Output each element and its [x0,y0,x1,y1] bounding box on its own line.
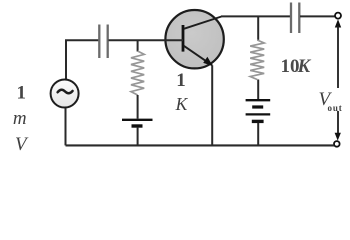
svg-text:V: V [15,134,29,155]
svg-text:out: out [328,103,343,113]
svg-text:1: 1 [176,70,186,91]
label: output voltage V out [319,89,343,113]
resistor R2 (10K collector resistor, zigzag) [250,40,264,80]
arrow: Vout lower (pointing down at terminal) [335,111,341,141]
wire: C1 to transistor base [109,39,184,41]
wire: junction drop to resistor R2 [257,16,259,40]
wire: source bottom to ground rail [65,108,67,145]
battery B2 (two cell supply under R2) [246,100,271,121]
arrow: Vout upper (pointing up at terminal) [335,19,341,88]
terminal: output top [335,13,341,19]
wire: B1 to ground rail [137,128,139,146]
resistor R1 (1K base resistor, zigzag) [131,51,144,95]
wire: collector top rail to output cap [221,15,291,17]
ac source V1 (1 mV signal generator) [51,80,79,108]
svg-text:m: m [13,108,27,129]
wire: bottom ground rail [66,144,335,146]
wire: left vertical from source to input cap [66,40,99,79]
label: R1 value "1 K" [175,70,189,114]
svg-text:1: 1 [17,83,27,104]
label: source value "1 m V" [13,83,29,156]
wire: R1 to battery B1 [137,95,139,119]
capacitor C2 (output coupling) [291,3,299,34]
wire: emitter vertical to ground rail [211,65,213,145]
wire: B2 to ground rail [257,123,259,146]
wire: C2 to output terminal [300,15,335,17]
label: R2 value "10K" [281,56,312,77]
transistor Q1 collector and emitter strokes [184,17,222,67]
capacitor C1 (input coupling) [99,25,107,59]
transistor Q1 (NPN, common emitter) [165,10,223,68]
terminal: output bottom [334,141,340,147]
wire: junction drop to resistor R1 [137,40,139,51]
battery B1 (single cell under R1) [122,120,153,126]
svg-text:K: K [175,94,189,114]
wire: R2 to battery B2 [257,80,259,100]
svg-text:K: K [297,56,312,77]
